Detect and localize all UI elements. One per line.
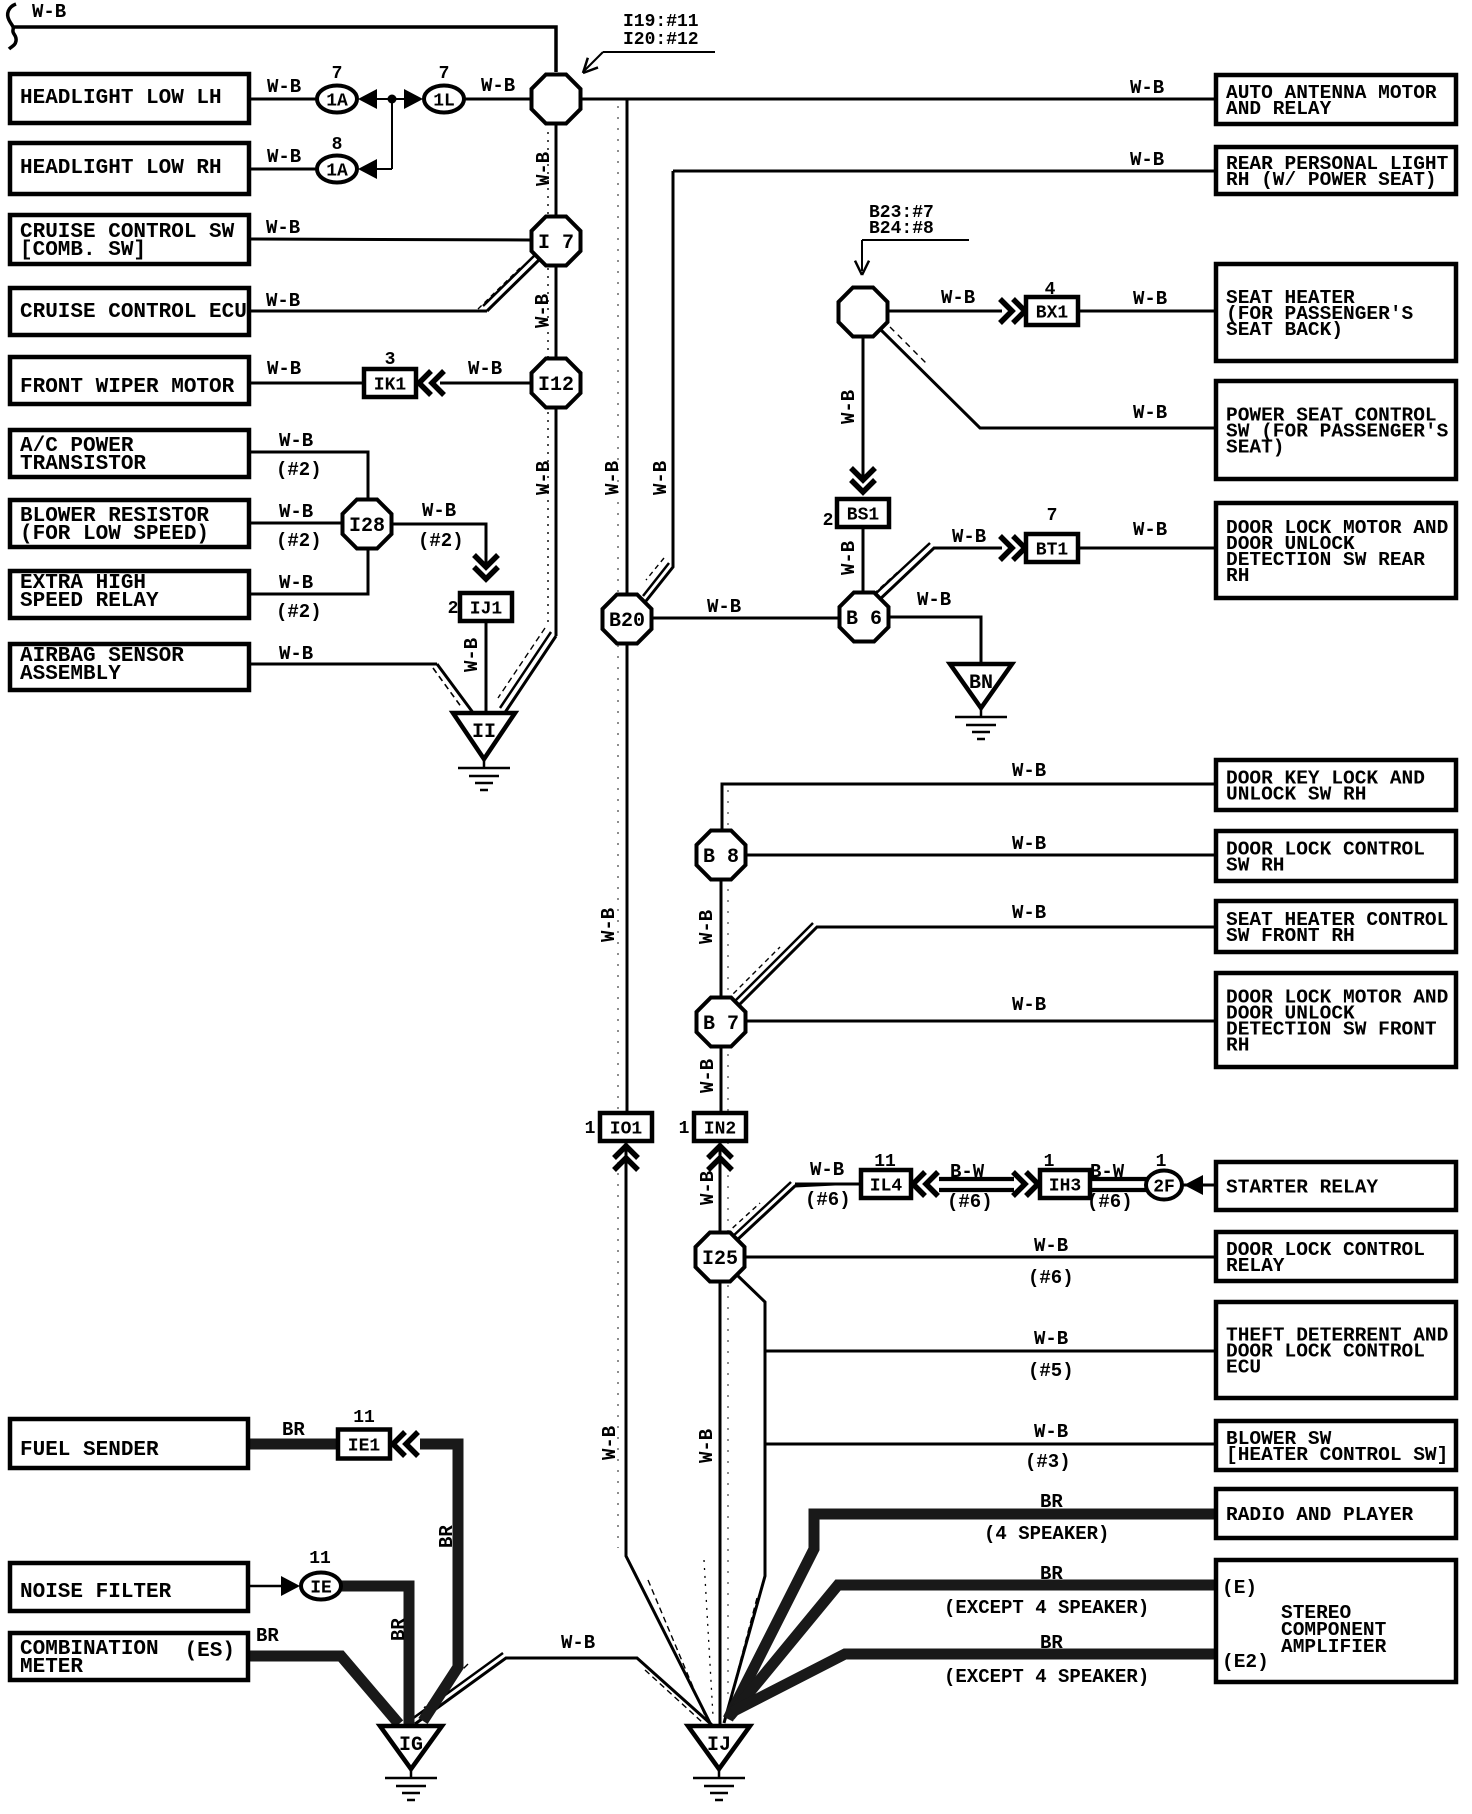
arrow into IE (281, 1576, 300, 1596)
svg-text:BR: BR (436, 1525, 458, 1548)
svg-text:SEAT): SEAT) (1226, 437, 1285, 459)
chevron into IO1 (614, 1146, 638, 1170)
svg-text:(#5): (#5) (1028, 1360, 1074, 1382)
label W-B bs1 below (838, 541, 860, 575)
svg-text:W-B: W-B (952, 526, 986, 548)
ground BN (950, 664, 1012, 739)
svg-text:W-B: W-B (1133, 288, 1167, 310)
label W-B vertical x720 low (696, 1429, 718, 1463)
component box NOISE FILTER (10, 1563, 248, 1611)
pin 1 of IN2 (679, 1119, 690, 1139)
component box DOOR LOCK MOTOR REAR RH (1216, 503, 1456, 598)
svg-text:AND RELAY: AND RELAY (1226, 98, 1332, 120)
label BR combination (256, 1625, 279, 1647)
svg-text:B24:#8: B24:#8 (869, 219, 934, 239)
arrow into 2F from starter relay (1184, 1175, 1203, 1195)
label W-B b6-bn (917, 589, 951, 611)
svg-text:W-B: W-B (1012, 833, 1046, 855)
svg-text:2F: 2F (1153, 1178, 1175, 1198)
label W-B i28-ij1 (418, 500, 464, 552)
wire B20 down to IO1 (626, 645, 629, 1114)
connector 1L (424, 86, 464, 113)
wire junction connector diagonal to power seat control sw (881, 327, 1216, 428)
svg-text:RH (W/ POWER SEAT): RH (W/ POWER SEAT) (1226, 169, 1437, 191)
svg-text:[HEATER CONTROL SW]: [HEATER CONTROL SW] (1226, 1444, 1448, 1466)
label BR radio (984, 1491, 1109, 1545)
label W-B 1L (481, 75, 515, 97)
svg-text:(#6): (#6) (1087, 1191, 1133, 1213)
svg-text:HEADLIGHT LOW RH: HEADLIGHT LOW RH (20, 157, 222, 180)
chevron into IL4 (913, 1172, 938, 1196)
wire IL4 to IH3 shielded pair (939, 1179, 1014, 1190)
label I19/I20 note (623, 12, 699, 50)
svg-text:STARTER RELAY: STARTER RELAY (1226, 1177, 1378, 1199)
label W-B b8 (1012, 833, 1046, 855)
svg-text:SPEED RELAY: SPEED RELAY (20, 590, 159, 613)
svg-text:W-B: W-B (279, 572, 313, 594)
junction connector B 6 (840, 593, 889, 642)
svg-text:2: 2 (823, 511, 834, 531)
junction connector I28 (343, 500, 392, 549)
wire door key lock sw rh down to B 8 (722, 784, 1216, 830)
shadow dashed line left of main vertical (547, 132, 549, 626)
svg-text:1: 1 (1156, 1152, 1167, 1172)
ground II (453, 713, 515, 790)
connector BT1 (1026, 534, 1078, 562)
label W-B b7 (1012, 994, 1046, 1016)
label W-B wiper (267, 358, 301, 380)
label W-B vertical x627 (602, 461, 624, 495)
chevron into IN2 (708, 1146, 732, 1170)
svg-text:W-B: W-B (650, 461, 672, 495)
wire front wiper motor to IK1 (249, 382, 366, 385)
label W-B auto antenna (1130, 77, 1164, 99)
pin 7 of BT1 (1047, 506, 1058, 526)
svg-text:ECU: ECU (1226, 1357, 1261, 1379)
svg-text:W-B: W-B (533, 152, 555, 186)
svg-text:[COMB. SW]: [COMB. SW] (20, 239, 146, 262)
label W-B vertical above I25 (697, 1171, 719, 1205)
svg-text:(#6): (#6) (947, 1191, 993, 1213)
component box DOOR LOCK CONTROL RELAY (1216, 1232, 1456, 1281)
svg-text:(#2): (#2) (276, 459, 322, 481)
svg-text:I 7: I 7 (538, 232, 574, 255)
wire vertical junction connector to I 7 to I12 (555, 125, 558, 360)
svg-text:W-B: W-B (561, 1632, 595, 1654)
label W-B vertical b8-b7 (696, 910, 718, 944)
label W-B extra high (276, 572, 322, 623)
junction connector I12 (532, 359, 581, 408)
wire a/c power transistor to I28 (249, 452, 368, 499)
connector 2F (1146, 1171, 1182, 1200)
svg-text:IK1: IK1 (374, 376, 407, 396)
svg-text:W-B: W-B (422, 500, 456, 522)
wire W-B to rear personal light rh (673, 170, 1216, 173)
component box STEREO COMPONENT AMPLIFIER (1216, 1560, 1456, 1682)
connector IE (301, 1573, 341, 1600)
wire 2F to starter relay (1180, 1184, 1216, 1187)
svg-text:W-B: W-B (696, 1429, 718, 1463)
wire BX1 to seat heater (1078, 310, 1216, 313)
svg-text:AMPLIFIER: AMPLIFIER (1281, 1636, 1387, 1658)
svg-text:IN2: IN2 (704, 1120, 736, 1140)
connector 1A headlight rh (317, 156, 357, 183)
label W-B b20-b6 (707, 596, 741, 618)
svg-text:SEAT BACK): SEAT BACK) (1226, 319, 1343, 341)
svg-text:(EXCEPT 4 SPEAKER): (EXCEPT 4 SPEAKER) (944, 1597, 1149, 1619)
svg-text:W-B: W-B (481, 75, 515, 97)
svg-text:11: 11 (309, 1549, 331, 1569)
svg-text:W-B: W-B (1012, 902, 1046, 924)
wire IL4 stub (795, 1183, 862, 1186)
junction connector B20 (603, 595, 652, 644)
label W-B bt1 right (1133, 519, 1167, 541)
svg-text:(#2): (#2) (418, 530, 464, 552)
svg-text:W-B: W-B (696, 910, 718, 944)
component box THEFT DETERRENT AND DOOR LOCK CONTROL ECU (1216, 1302, 1456, 1398)
svg-text:W-B: W-B (838, 390, 860, 424)
label W-B door key (1012, 760, 1046, 782)
svg-text:W-B: W-B (1133, 519, 1167, 541)
label BR vertical ie1 line (436, 1525, 458, 1548)
label BR vertical ie line (388, 1618, 410, 1641)
svg-text:BT1: BT1 (1036, 541, 1069, 561)
wire IE thick BR to ground IG (340, 1586, 409, 1726)
svg-text:W-B: W-B (1034, 1328, 1068, 1350)
svg-text:I25: I25 (702, 1248, 738, 1271)
svg-text:IJ1: IJ1 (470, 600, 503, 620)
svg-text:1: 1 (1044, 1152, 1055, 1172)
label W-B top (32, 1, 66, 23)
wire I25 down to theft deterrent ecu and blower sw (724, 1275, 765, 1723)
svg-text:W-B: W-B (697, 1059, 719, 1093)
svg-text:7: 7 (332, 64, 343, 84)
svg-text:W-B: W-B (707, 596, 741, 618)
arrow into 1A lh (358, 89, 377, 109)
svg-text:DETECTION SW FRONT: DETECTION SW FRONT (1226, 1019, 1437, 1041)
label W-B bt1 left (952, 526, 986, 548)
svg-text:I19:#11: I19:#11 (623, 12, 699, 32)
wire fuel sender thick BR to IE1 (248, 1439, 340, 1450)
svg-text:W-B: W-B (1012, 760, 1046, 782)
label W-B power seat (1133, 402, 1167, 424)
connector IN2 (694, 1113, 746, 1141)
svg-text:W-B: W-B (1130, 77, 1164, 99)
svg-text:BR: BR (1040, 1632, 1063, 1654)
svg-text:W-B: W-B (1130, 149, 1164, 171)
svg-text:W-B: W-B (533, 461, 555, 495)
label W-B vertical below b7 (697, 1059, 719, 1093)
svg-text:W-B: W-B (32, 1, 66, 23)
wire BT1 to door lock motor rear rh (1078, 547, 1216, 550)
svg-text:(ES): (ES) (185, 1640, 235, 1663)
junction connector I 7 (532, 217, 581, 266)
svg-text:W-B: W-B (532, 294, 554, 328)
connector IK1 (364, 369, 416, 397)
svg-text:BN: BN (969, 672, 993, 695)
svg-text:IH3: IH3 (1049, 1177, 1081, 1197)
svg-text:(E2): (E2) (1222, 1651, 1269, 1673)
junction connector I25 (696, 1233, 745, 1282)
svg-text:CRUISE CONTROL ECU: CRUISE CONTROL ECU (20, 301, 247, 324)
component box HEADLIGHT LOW RH (10, 143, 249, 194)
junction connector B 7 (697, 998, 746, 1047)
pin 3 of IK1 (385, 350, 396, 370)
connector IL4 (861, 1170, 911, 1198)
svg-text:RADIO AND PLAYER: RADIO AND PLAYER (1226, 1504, 1414, 1526)
component box CRUISE CONTROL ECU (10, 288, 249, 335)
chevron into BT1 (1000, 536, 1025, 560)
connector IH3 (1040, 1170, 1090, 1198)
junction connector B 8 (697, 831, 746, 880)
wire BS1 down to B 6 (862, 527, 865, 592)
label B-W il4-ih3 (947, 1161, 993, 1213)
component box AUTO ANTENNA MOTOR AND RELAY (1216, 75, 1456, 124)
component box FUEL SENDER (10, 1419, 248, 1468)
wire cruise control ecu to I 7 (doubled diagonal) (249, 253, 542, 311)
svg-text:(FOR LOW SPEED): (FOR LOW SPEED) (20, 523, 209, 546)
connector IO1 (600, 1113, 652, 1141)
svg-text:II: II (472, 721, 496, 744)
chevron into IK1 (419, 371, 444, 395)
component box POWER SEAT CONTROL SW (1216, 381, 1456, 479)
label W-B blower sw (1025, 1421, 1071, 1473)
component box STARTER RELAY (1216, 1162, 1456, 1210)
svg-text:FRONT WIPER MOTOR: FRONT WIPER MOTOR (20, 376, 235, 399)
pin 7 of 1L (439, 64, 450, 84)
dashed shadows at ground IJ fan (648, 1560, 757, 1718)
svg-text:METER: METER (20, 1656, 83, 1679)
svg-text:SW RH: SW RH (1226, 855, 1285, 877)
label B-W ih3-2f (1087, 1161, 1133, 1213)
label W-B cruise ecu (266, 290, 300, 312)
arrow into 1A rh (358, 159, 377, 179)
svg-text:BR: BR (388, 1618, 410, 1641)
svg-text:W-B: W-B (279, 430, 313, 452)
continuation squiggle at wire start (8, 4, 16, 49)
wire I25 to door lock control relay (745, 1256, 1216, 1259)
svg-text:1: 1 (679, 1119, 690, 1139)
component box BLOWER SW (1216, 1421, 1456, 1470)
wire headlight low rh to connector 1A (249, 168, 319, 171)
svg-text:B 7: B 7 (703, 1013, 739, 1036)
svg-text:IO1: IO1 (610, 1120, 643, 1140)
svg-text:1: 1 (585, 1119, 596, 1139)
svg-text:UNLOCK SW RH: UNLOCK SW RH (1226, 784, 1366, 806)
label W-B headlight rh (267, 146, 301, 168)
svg-text:IE1: IE1 (348, 1437, 381, 1457)
svg-text:NOISE FILTER: NOISE FILTER (20, 1581, 172, 1604)
chevron into IH3 (1013, 1172, 1038, 1196)
label BR stereo e (944, 1563, 1149, 1619)
svg-text:(#6): (#6) (805, 1189, 851, 1211)
svg-text:11: 11 (874, 1152, 896, 1172)
component box EXTRA HIGH SPEED RELAY (10, 571, 249, 618)
svg-text:W-B: W-B (697, 1171, 719, 1205)
svg-text:W-B: W-B (941, 287, 975, 309)
arrow into 1L (404, 89, 423, 109)
svg-text:4: 4 (1045, 280, 1056, 300)
pin 1 of IO1 (585, 1119, 596, 1139)
label W-B bx1 left (941, 287, 975, 309)
svg-text:3: 3 (385, 350, 396, 370)
svg-text:B20: B20 (609, 610, 645, 633)
svg-text:(E): (E) (1222, 1577, 1257, 1599)
component box BLOWER RESISTOR (10, 500, 249, 547)
component box DOOR KEY LOCK AND UNLOCK SW RH (1216, 760, 1456, 810)
svg-text:W-B: W-B (267, 76, 301, 98)
wire IN2 down through I25 to ground IJ (719, 1140, 722, 1726)
pin 11 of IE1 (353, 1408, 375, 1428)
svg-text:B 6: B 6 (846, 608, 882, 631)
label W-B ig-ij link (561, 1632, 595, 1654)
svg-text:(#3): (#3) (1025, 1451, 1071, 1473)
svg-text:BR: BR (1040, 1563, 1063, 1585)
svg-text:BR: BR (282, 1419, 305, 1441)
svg-text:IJ: IJ (707, 1734, 731, 1757)
wire combination meter thick BR to ground IG (248, 1656, 399, 1724)
junction connector B23/B24 (839, 288, 888, 337)
svg-text:W-B: W-B (838, 541, 860, 575)
label W-B ij1 line (461, 638, 483, 672)
label W-B vertical above I 7 (533, 152, 555, 186)
label BR stereo e2 (944, 1632, 1149, 1688)
svg-text:11: 11 (353, 1408, 375, 1428)
svg-text:IL4: IL4 (870, 1177, 903, 1197)
svg-text:W-B: W-B (598, 908, 620, 942)
connector BS1 (837, 499, 889, 527)
svg-text:(4 SPEAKER): (4 SPEAKER) (984, 1523, 1109, 1545)
component box SEAT HEATER CONTROL SW FRONT RH (1216, 901, 1456, 952)
component box SEAT HEATER (1216, 264, 1456, 361)
label W-B bs1 above (838, 390, 860, 424)
label W-B airbag (279, 643, 313, 665)
connector 1A headlight lh (317, 86, 357, 113)
label W-B rear personal (1130, 149, 1164, 171)
label W-B cruise sw (266, 217, 300, 239)
svg-text:(#2): (#2) (276, 601, 322, 623)
svg-text:W-B: W-B (917, 589, 951, 611)
wire I28 to IJ1 (392, 524, 486, 568)
chevron into IJ1 (474, 555, 498, 579)
component box FRONT WIPER MOTOR (10, 357, 249, 404)
svg-text:W-B: W-B (266, 290, 300, 312)
svg-text:RH: RH (1226, 1035, 1249, 1057)
svg-text:7: 7 (439, 64, 450, 84)
connector IE1 (338, 1430, 390, 1459)
junction dot (388, 95, 397, 104)
svg-text:1A: 1A (326, 92, 348, 112)
label W-B il4 (805, 1159, 851, 1211)
chevron into IE1 (393, 1432, 418, 1456)
wire extra high speed relay to I28 (249, 550, 368, 594)
wire IJ1 to ground II (485, 618, 488, 716)
component box DOOR LOCK MOTOR FRONT RH (1216, 973, 1456, 1067)
pin 11 of IE (309, 1549, 331, 1569)
label W-B headlight lh (267, 76, 301, 98)
label W-B blower resistor (276, 501, 322, 552)
component box RADIO AND PLAYER (1216, 1489, 1456, 1538)
wire B20 to B 6 (652, 617, 839, 620)
label W-B vertical x626 mid (598, 908, 620, 942)
label B23/B24 note (869, 203, 934, 239)
svg-text:BR: BR (1040, 1491, 1063, 1513)
wire IH3 to 2F shielded pair (1090, 1179, 1148, 1190)
svg-text:1A: 1A (326, 162, 348, 182)
wire W-B to auto antenna motor and relay (581, 98, 1216, 101)
junction connector (I19/I20) (532, 75, 581, 124)
pin 7 of 1A lh (332, 64, 343, 84)
pin 1 of 2F (1156, 1152, 1167, 1172)
wire ground IG to ground IJ link (doubled diagonal) (412, 1653, 712, 1725)
wire IK1 to I12 (440, 382, 531, 385)
svg-text:(#2): (#2) (276, 530, 322, 552)
component box COMBINATION METER (10, 1633, 248, 1680)
wire B 8 down to B 7 (720, 879, 723, 998)
wire connector 1L to junction connector (463, 98, 531, 101)
svg-text:ASSEMBLY: ASSEMBLY (20, 663, 121, 686)
wire B 8 to door lock control sw rh (746, 854, 1216, 857)
wire B 7 to door lock motor front rh (746, 1020, 1216, 1023)
wire junction dashes between 1A connectors (376, 99, 404, 169)
svg-text:SW FRONT RH: SW FRONT RH (1226, 925, 1355, 947)
svg-text:I28: I28 (349, 515, 385, 538)
label W-B vertical I7-I12 (532, 294, 554, 328)
svg-text:I12: I12 (538, 374, 574, 397)
svg-text:2: 2 (448, 599, 459, 619)
svg-text:W-B: W-B (279, 501, 313, 523)
svg-text:W-B: W-B (599, 1426, 621, 1460)
svg-text:B 8: B 8 (703, 846, 739, 869)
component box A/C POWER TRANSISTOR (10, 430, 249, 477)
label W-B vertical x626 low (599, 1426, 621, 1460)
svg-text:BR: BR (256, 1625, 279, 1647)
wire vertical branch to B20 (626, 99, 629, 593)
svg-text:BS1: BS1 (847, 506, 880, 526)
pin 2 of BS1 (823, 511, 834, 531)
wire stereo amplifier (E) thick BR to ground IJ (730, 1585, 1216, 1716)
wire B23/B24 junction connector to BX1 (888, 310, 1002, 313)
wire IE1 thick BR to ground IG (420, 1444, 458, 1721)
label BR fuel (282, 1419, 305, 1441)
svg-text:W-B: W-B (602, 461, 624, 495)
svg-text:RELAY: RELAY (1226, 1255, 1285, 1277)
svg-text:DETECTION SW REAR: DETECTION SW REAR (1226, 549, 1425, 571)
svg-text:W-B: W-B (266, 217, 300, 239)
wire to theft deterrent and door lock control ecu (765, 1350, 1216, 1353)
component box AIRBAG SENSOR ASSEMBLY (10, 644, 249, 690)
wire vertical branch to B20 (doubled diagonal) (643, 171, 673, 601)
svg-text:(EXCEPT 4 SPEAKER): (EXCEPT 4 SPEAKER) (944, 1666, 1149, 1688)
svg-text:W-B: W-B (1012, 994, 1046, 1016)
leader arrow B23/B24 (855, 240, 969, 275)
svg-text:TRANSISTOR: TRANSISTOR (20, 453, 146, 476)
wire I12 down to ground II (doubled diagonal) (498, 406, 556, 714)
shadow dashed line x728 (727, 790, 729, 1700)
svg-text:W-B: W-B (468, 358, 502, 380)
ground IG (380, 1726, 442, 1800)
svg-text:RH: RH (1226, 565, 1249, 587)
label W-B seat heater control (1012, 902, 1046, 924)
component box DOOR LOCK CONTROL SW RH (1216, 831, 1456, 881)
wire to blower sw heater control sw (765, 1443, 1216, 1446)
svg-text:W-B: W-B (267, 358, 301, 380)
wire B 6 to BT1 (doubled diagonal) (867, 543, 1002, 602)
svg-text:BX1: BX1 (1036, 304, 1069, 324)
svg-text:W-B: W-B (1133, 402, 1167, 424)
component box REAR PERSONAL LIGHT RH (1216, 147, 1456, 194)
svg-text:IE: IE (310, 1579, 332, 1599)
